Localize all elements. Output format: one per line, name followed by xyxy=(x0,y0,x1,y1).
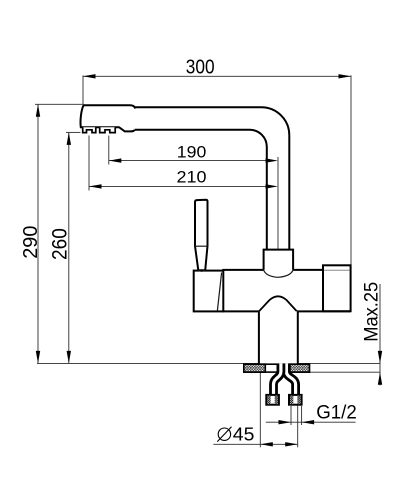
diameter symbol xyxy=(218,428,230,440)
left connector hatch L xyxy=(267,395,270,404)
flange left hatched block xyxy=(244,364,265,372)
arrow 210 left xyxy=(89,184,102,188)
barrel top edge right xyxy=(293,269,323,271)
handle lever xyxy=(195,200,208,270)
lower cylinder fill xyxy=(259,311,298,364)
dim 190 line xyxy=(109,160,278,162)
arrow 260 top xyxy=(67,132,71,145)
dim 210 ext xyxy=(88,136,90,191)
pipe centerline xyxy=(277,157,279,249)
svg-text:260: 260 xyxy=(49,228,72,260)
arrow 300 right xyxy=(339,74,352,78)
right cap xyxy=(323,265,351,311)
arrow 300 left xyxy=(83,74,96,78)
d45 ext left xyxy=(259,373,261,447)
svg-text:45: 45 xyxy=(233,424,255,445)
left connector nut xyxy=(266,395,279,405)
spout head xyxy=(81,105,136,131)
arrow d45 left xyxy=(260,442,273,446)
aerator tabs left pair xyxy=(83,127,96,132)
dim 300 ext right xyxy=(350,75,352,264)
svg-text:Max.25: Max.25 xyxy=(361,282,382,342)
hub fill xyxy=(259,296,297,311)
dim 290 line xyxy=(37,104,39,363)
svg-text:190: 190 xyxy=(177,143,207,161)
arrow d45 right xyxy=(285,442,298,446)
arrow G12 left xyxy=(279,420,292,424)
handle joint line xyxy=(195,245,208,247)
barrel bottom edge left xyxy=(222,310,259,312)
aerator tabs right pair xyxy=(100,127,116,132)
dim 300 ext left xyxy=(82,75,84,104)
arrow Max25 top xyxy=(378,351,382,364)
hub outline xyxy=(259,296,297,311)
lower cylinder right edge xyxy=(297,311,299,364)
svg-text:300: 300 xyxy=(186,57,215,79)
barrel top edge left xyxy=(222,269,263,271)
right hose bore xyxy=(286,364,295,397)
d45 ext right xyxy=(297,406,299,448)
dim 290 ext top xyxy=(35,103,83,105)
left connector hatch R xyxy=(275,395,278,404)
arrow 190 right xyxy=(266,158,279,162)
svg-text:G1/2: G1/2 xyxy=(316,402,357,424)
svg-text:210: 210 xyxy=(177,168,207,186)
G1/2 dim line xyxy=(266,421,356,423)
left hose bore xyxy=(274,364,281,397)
dim 190 ext xyxy=(108,136,110,165)
arrow 190 left xyxy=(109,158,122,162)
deck bottom line xyxy=(310,371,381,373)
flange bar xyxy=(244,364,310,372)
arrow 260 bottom xyxy=(67,351,71,364)
svg-text:290: 290 xyxy=(19,226,42,259)
arrow Max25 bottom xyxy=(378,372,382,385)
counter top line xyxy=(37,362,380,364)
left cap xyxy=(194,271,224,312)
dim Max25 line xyxy=(379,284,381,386)
right hose black xyxy=(286,364,295,397)
arrow 290 top xyxy=(36,104,40,117)
right connector nut xyxy=(289,395,302,405)
dim 260 ext top xyxy=(66,131,81,133)
handle base arc xyxy=(198,270,205,271)
collar bottom sag arc xyxy=(264,270,294,277)
body barrel fill xyxy=(223,270,350,312)
G1/2 ext left xyxy=(290,406,292,425)
right cap inner line xyxy=(324,269,350,271)
collar xyxy=(264,250,294,270)
right connector hatch R xyxy=(297,395,300,404)
arrow G12 right xyxy=(302,420,315,424)
spout tube with bend xyxy=(133,107,289,250)
barrel bottom edge right xyxy=(297,310,351,312)
arrow 290 bottom xyxy=(36,351,40,364)
left cap cone joint xyxy=(217,273,221,311)
flange right hatched block xyxy=(290,364,310,372)
d45 dim line xyxy=(213,443,297,445)
dim 300 line xyxy=(83,75,351,77)
G1/2 ext right xyxy=(301,406,303,425)
right connector hatch L xyxy=(290,395,293,404)
dim 260 line xyxy=(68,132,70,363)
arrow 210 right xyxy=(266,184,279,188)
dim 210 line xyxy=(89,185,278,187)
lower cylinder left edge xyxy=(258,311,260,364)
left hose black xyxy=(274,364,281,397)
